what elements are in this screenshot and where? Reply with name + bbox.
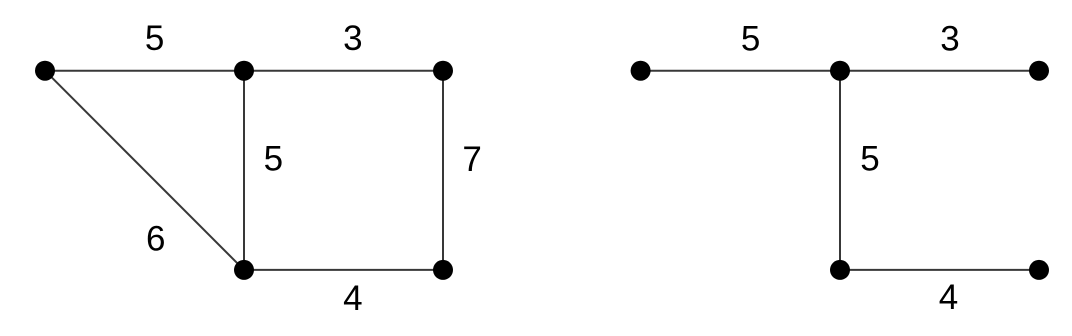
svg-text:3: 3 — [343, 19, 362, 58]
svg-text:6: 6 — [146, 220, 165, 259]
svg-text:7: 7 — [462, 140, 481, 179]
svg-text:4: 4 — [939, 278, 958, 317]
svg-text:5: 5 — [264, 140, 283, 179]
node A — [35, 61, 55, 81]
left graph — [45, 71, 443, 270]
svg-text:5: 5 — [741, 20, 760, 59]
node B — [234, 61, 254, 81]
edge C-E — [442, 71, 444, 270]
node B' — [830, 61, 850, 81]
node D' — [830, 260, 850, 280]
edge B-D — [243, 71, 245, 270]
svg-text:5: 5 — [145, 19, 164, 58]
edge B'-C' — [840, 70, 1039, 72]
edge A'-B' — [641, 70, 840, 72]
node A' — [631, 61, 651, 81]
right graph — [641, 71, 1039, 270]
edge B-C — [244, 70, 443, 72]
edge B'-D' — [839, 71, 841, 270]
svg-text:5: 5 — [860, 140, 879, 179]
edge D'-E' — [840, 269, 1039, 271]
edge A-D — [45, 71, 244, 270]
node D — [234, 260, 254, 280]
svg-text:4: 4 — [343, 279, 362, 318]
node E' — [1029, 260, 1049, 280]
edge A-B — [45, 70, 244, 72]
svg-text:3: 3 — [940, 19, 959, 58]
node C' — [1029, 61, 1049, 81]
edge D-E — [244, 269, 443, 271]
node E — [433, 260, 453, 280]
node C — [433, 61, 453, 81]
